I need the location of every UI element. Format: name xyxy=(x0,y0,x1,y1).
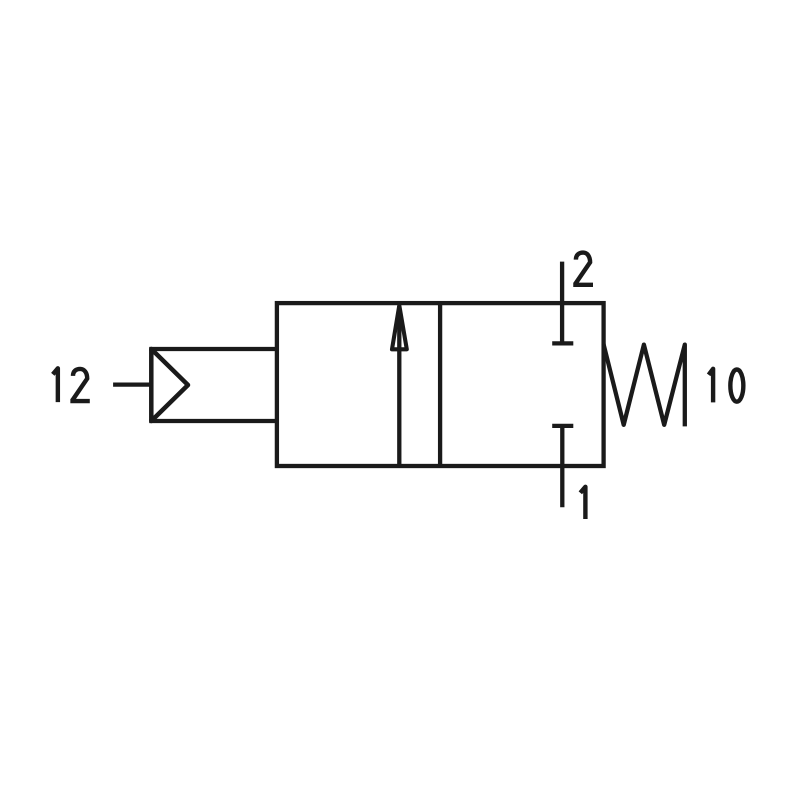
pilot actuator triangle xyxy=(151,349,188,421)
label 10 digit 1 xyxy=(709,369,714,403)
label 12 digit 1 xyxy=(53,368,58,402)
pilot actuator box top wire xyxy=(149,347,277,351)
label 10 digit 0 xyxy=(730,370,743,402)
valve body (2-position envelope) xyxy=(277,303,604,466)
port 2 line xyxy=(560,262,564,344)
flow path arrowhead xyxy=(392,306,407,350)
pilot signal wire 12 xyxy=(113,382,151,386)
flow path arrow shaft xyxy=(397,306,401,466)
label 1 (port 1) xyxy=(580,487,585,519)
position divider wire xyxy=(438,303,442,466)
label 12 digit 2 xyxy=(70,369,89,401)
pilot actuator box bottom wire xyxy=(149,419,277,423)
port 1 blocked seat xyxy=(552,424,573,428)
label 2 (port 2) xyxy=(573,253,593,285)
port 2 blocked seat xyxy=(552,341,573,345)
port 1 line xyxy=(560,426,564,507)
spring return xyxy=(604,344,685,426)
